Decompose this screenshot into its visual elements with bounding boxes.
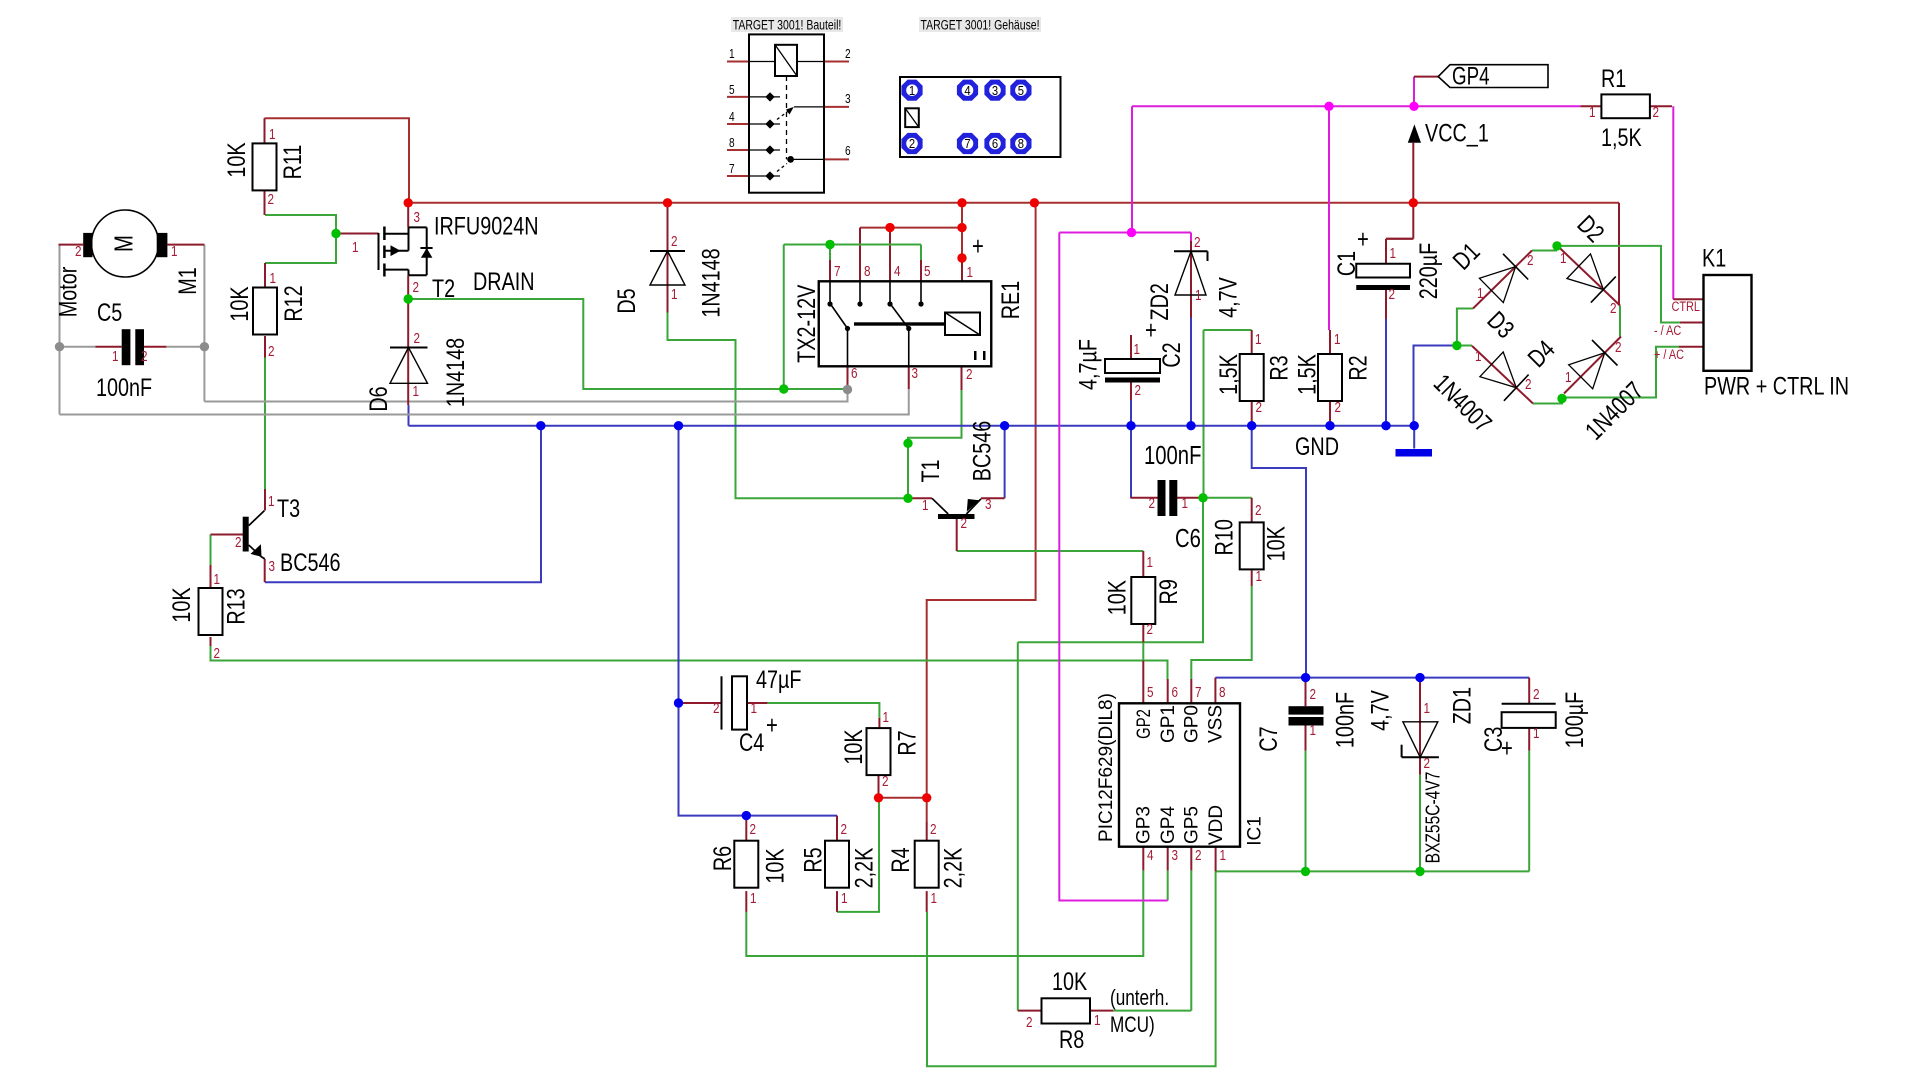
pin R2.2 — [1329, 401, 1331, 426]
pin T3.2 base — [211, 534, 244, 536]
pin ZD2.2 — [1190, 241, 1192, 295]
pin R13.2 — [210, 637, 212, 646]
resistor R3 — [1240, 354, 1264, 401]
pin D5.2 — [667, 203, 669, 285]
wire bus to RE1 coil — [961, 203, 963, 258]
svg-text:6: 6 — [1172, 684, 1179, 701]
svg-text:PIC12F629(DIL8): PIC12F629(DIL8) — [1096, 693, 1117, 842]
pin R8.1 — [1090, 1010, 1113, 1012]
svg-text:1: 1 — [841, 890, 848, 907]
svg-text:- / AC: - / AC — [1654, 323, 1681, 339]
pin R2.1 — [1329, 330, 1331, 354]
svg-text:C1: C1 — [1332, 251, 1361, 276]
pin R5.1 — [836, 891, 838, 912]
pin R12.1 — [264, 263, 266, 288]
pin IC1.4 — [1142, 847, 1144, 871]
svg-text:3: 3 — [269, 558, 276, 575]
junction red (890,227.6) — [885, 223, 894, 232]
wire T2 drain — [408, 299, 784, 389]
svg-text:1: 1 — [1533, 725, 1540, 742]
wire GP4 net to ZD2.2 — [1059, 232, 1191, 234]
svg-text:5: 5 — [1018, 83, 1025, 98]
junction red (962,202.8) — [957, 198, 966, 207]
diode D3 — [1472, 346, 1533, 404]
svg-text:R7: R7 — [892, 730, 921, 755]
wire R12.2 to T3 collector — [264, 358, 266, 490]
svg-text:MCU): MCU) — [1110, 1013, 1155, 1038]
svg-text:47µF: 47µF — [756, 665, 802, 694]
svg-text:GP4: GP4 — [1452, 62, 1489, 90]
svg-text:K1: K1 — [1702, 243, 1726, 272]
resistor R8 — [1042, 998, 1091, 1023]
symbol box TARGET 3001 Gehaeuse — [919, 17, 1041, 32]
svg-text:2: 2 — [235, 534, 242, 551]
svg-text:8: 8 — [729, 136, 735, 150]
wire IC1 GP0 to R10.1 — [1191, 586, 1251, 679]
pin Bautei p5 — [727, 96, 749, 98]
pin R10.1 — [1251, 570, 1253, 586]
pin R1.2 — [1650, 105, 1672, 107]
pin C1.1 — [1385, 239, 1387, 264]
svg-text:GND: GND — [1295, 432, 1339, 461]
pin IC1.8 — [1214, 678, 1216, 704]
wire R11.2 to T2 gate node — [265, 215, 336, 234]
svg-text:2: 2 — [1610, 300, 1617, 317]
svg-text:10K: 10K — [1052, 967, 1087, 996]
wire M1.2 loop left — [59, 245, 61, 415]
junction red (1413.3,202.8) — [1409, 198, 1418, 207]
junction red (962,258) — [957, 253, 966, 262]
pin RE1.3 — [908, 366, 910, 389]
svg-text:3: 3 — [985, 496, 992, 513]
svg-text:1: 1 — [1094, 1012, 1101, 1029]
wire GND bus to C4.2 and R6.2 R5.2 — [679, 426, 838, 816]
pin RE1.1 — [961, 258, 963, 313]
wire node to R4.2 — [926, 798, 928, 822]
svg-text:1,5K: 1,5K — [1292, 354, 1321, 395]
svg-text:10K: 10K — [1261, 526, 1290, 561]
svg-text:2: 2 — [413, 279, 420, 296]
pad 8 — [1010, 133, 1031, 154]
svg-text:10K: 10K — [167, 587, 196, 622]
svg-text:1: 1 — [1560, 250, 1567, 267]
wire GND bus to T1.3 — [1004, 426, 1006, 499]
wire ZD2.1 to GND bus — [1190, 318, 1192, 426]
zener diode ZD2 — [1174, 250, 1208, 252]
svg-text:2: 2 — [930, 821, 937, 838]
pin R8.2 — [1018, 1010, 1042, 1012]
wire C7.1 down — [1305, 751, 1307, 872]
svg-text:8: 8 — [864, 263, 871, 280]
svg-text:R12: R12 — [279, 285, 308, 321]
capacitor C2 — [1105, 359, 1160, 373]
junction blue (746.3,815.6) — [742, 811, 751, 820]
svg-text:2: 2 — [713, 700, 720, 717]
pin T1.2 — [956, 519, 958, 551]
junction red (1034.4,202.8) — [1030, 198, 1039, 207]
wire C6 node down-left — [1018, 498, 1203, 643]
svg-text:1: 1 — [751, 700, 758, 717]
svg-text:10K: 10K — [225, 286, 254, 321]
svg-text:10K: 10K — [760, 848, 789, 883]
svg-text:1: 1 — [1589, 104, 1596, 121]
svg-text:T3: T3 — [277, 494, 300, 523]
pad coil symbol — [905, 108, 919, 127]
svg-text:2: 2 — [214, 645, 221, 662]
svg-text:2: 2 — [268, 343, 275, 360]
svg-text:TX2-12V: TX2-12V — [792, 284, 821, 363]
wire D5.1 to T1 base node — [668, 313, 909, 499]
wire +12V bus — [408, 202, 1619, 204]
wire gate node to R12.1 — [265, 234, 336, 264]
junction green (1557,245.9) — [1552, 241, 1561, 250]
svg-text:C2: C2 — [1157, 342, 1186, 367]
svg-text:2: 2 — [882, 773, 889, 790]
wire RE1 pin8 drop — [859, 228, 861, 282]
svg-text:3: 3 — [912, 365, 919, 382]
svg-text:CTRL: CTRL — [1672, 299, 1701, 315]
svg-text:1: 1 — [171, 243, 178, 260]
svg-text:1: 1 — [1195, 287, 1202, 304]
wire ZD2.2 link — [1190, 233, 1192, 242]
pin IC1.6 — [1167, 679, 1169, 703]
wire RE1 pins 8-4 feed — [860, 227, 962, 229]
svg-text:IC1: IC1 — [1245, 816, 1266, 846]
wire C5.2 link — [166, 346, 204, 348]
svg-text:Motor: Motor — [53, 266, 82, 317]
svg-text:1: 1 — [413, 383, 420, 400]
pin ZD2.1 — [1190, 295, 1192, 318]
junction blue (1305.6,677.6) — [1301, 673, 1310, 682]
svg-text:2: 2 — [1525, 376, 1532, 393]
svg-text:GP1: GP1 — [1158, 705, 1179, 743]
wire down to R8.2 — [1017, 642, 1019, 1010]
wire GP4 net long drop to MCU GP4 — [1059, 233, 1167, 901]
wire to C5.1 — [60, 346, 96, 348]
pin RE1.5 — [920, 260, 922, 281]
svg-text:4: 4 — [729, 110, 735, 124]
diode D2 — [1557, 245, 1620, 305]
pin K1 -/AC — [1680, 322, 1704, 324]
pin RE1.2 — [961, 335, 963, 390]
svg-text:1: 1 — [1255, 331, 1262, 348]
svg-text:4: 4 — [964, 83, 971, 98]
wire R7.2-R4.2 node — [879, 797, 927, 799]
symbol box TARGET 3001 Bauteil — [731, 17, 843, 32]
wire R3.1 down to C6 node — [1203, 330, 1205, 498]
svg-text:2,2K: 2,2K — [938, 848, 967, 889]
wire bridge right corner link — [1619, 306, 1621, 337]
wire GP5 drop — [1190, 870, 1192, 1010]
svg-text:2: 2 — [1255, 502, 1262, 519]
pin Bautei p4 — [727, 123, 749, 125]
wire RE1 pin5 drop — [920, 245, 922, 261]
svg-text:4,7V: 4,7V — [1213, 276, 1242, 317]
pin C5.1 — [95, 346, 121, 348]
pin M1.1 — [167, 244, 204, 246]
svg-text:R9: R9 — [1154, 579, 1183, 604]
wire drain to RE1 pin6 — [784, 388, 848, 390]
pin R3.1 — [1251, 330, 1253, 354]
wire bottom corner to K1 +/AC — [1562, 347, 1679, 398]
svg-text:5: 5 — [924, 263, 931, 280]
pin T2.1 gate — [336, 233, 379, 235]
wire motor to RE1 pin6 — [204, 390, 847, 402]
svg-text:6: 6 — [851, 365, 858, 382]
svg-text:5: 5 — [729, 83, 735, 97]
junction gray (59.5,346.7) — [55, 342, 64, 351]
svg-text:2: 2 — [75, 243, 82, 260]
junction green (408.2,299) — [404, 294, 413, 303]
pin C2.2 — [1130, 383, 1132, 401]
svg-text:4,7µF: 4,7µF — [1073, 339, 1102, 390]
svg-text:1: 1 — [750, 890, 757, 907]
svg-text:TARGET 3001! Gehäuse!: TARGET 3001! Gehäuse! — [920, 17, 1039, 33]
svg-text:1: 1 — [1256, 568, 1263, 585]
pin M1.2 — [59, 244, 84, 246]
pin T2.2 — [407, 275, 409, 299]
junction gray (204.4,346.7) — [200, 342, 209, 351]
svg-text:R13: R13 — [221, 588, 250, 624]
pin R11.1 — [264, 118, 266, 143]
svg-text:2: 2 — [1527, 252, 1534, 269]
svg-text:VDD: VDD — [1206, 805, 1227, 845]
pin R7.2 — [878, 774, 880, 798]
svg-text:1: 1 — [269, 126, 276, 143]
pad 5 — [1010, 80, 1031, 101]
wire C3.1 down — [1528, 751, 1530, 872]
capacitor C4 — [721, 676, 723, 729]
transistor T2 MOSFET — [378, 233, 380, 270]
svg-text:1: 1 — [1475, 348, 1482, 365]
wire node to R5.1 — [837, 798, 879, 912]
diode D4 — [1564, 337, 1621, 394]
svg-text:2: 2 — [1256, 399, 1263, 416]
pin C3.2 — [1528, 678, 1530, 704]
power VCC_1 arrow — [1408, 124, 1421, 142]
svg-text:2: 2 — [845, 47, 851, 61]
svg-text:1: 1 — [967, 264, 974, 281]
svg-text:2: 2 — [268, 191, 275, 208]
svg-text:1: 1 — [1334, 331, 1341, 348]
wire GND bus down to VSS net — [1252, 426, 1306, 678]
pad 1 — [901, 80, 922, 101]
pad 3 — [984, 80, 1005, 101]
wire RE1 pin7-pin5 top link — [784, 244, 921, 246]
pin C4.1 — [747, 702, 767, 704]
svg-text:4,7V: 4,7V — [1365, 689, 1394, 730]
svg-text:2: 2 — [414, 330, 421, 347]
resistor R6 — [734, 841, 758, 888]
svg-text:GP4: GP4 — [1158, 806, 1179, 844]
svg-text:1: 1 — [112, 348, 119, 365]
wire VCC to C1 — [1386, 238, 1413, 240]
pin R9.2 — [1142, 625, 1144, 643]
wire C1.2 to GND bus — [1385, 319, 1387, 426]
svg-text:2: 2 — [1653, 104, 1660, 121]
pin T1.3 — [981, 497, 1005, 499]
pin C7.1 — [1305, 726, 1307, 751]
wire GP4 flag stub — [1413, 77, 1415, 107]
wire VDD down to R4.1 — [927, 871, 1216, 1066]
svg-text:10K: 10K — [839, 729, 868, 764]
wire left corner up to D1.1 — [1457, 309, 1473, 346]
svg-text:R10: R10 — [1209, 519, 1238, 555]
svg-text:M1: M1 — [173, 267, 202, 295]
junction magenta (1414,106.3) — [1409, 102, 1418, 111]
wire ZD1.2 down — [1419, 775, 1421, 872]
resistor R13 — [199, 588, 223, 635]
wire GP4 pin piece — [1167, 870, 1169, 900]
svg-text:1: 1 — [1147, 554, 1154, 571]
wire T3 base to R13.1 — [210, 535, 212, 566]
svg-text:ZD1: ZD1 — [1447, 687, 1476, 724]
svg-text:BC546: BC546 — [967, 421, 996, 482]
pin RE1.7 — [829, 260, 831, 281]
svg-text:1: 1 — [909, 83, 916, 98]
diode D6 — [390, 347, 428, 349]
connector K1 — [1704, 275, 1752, 371]
svg-text:2: 2 — [909, 137, 915, 152]
svg-text:7: 7 — [729, 162, 735, 176]
svg-text:+: + — [1501, 734, 1513, 763]
junction blue (1386,425.7) — [1381, 421, 1390, 430]
pin R10.2 — [1251, 498, 1253, 523]
svg-text:RE1: RE1 — [996, 281, 1025, 320]
wire D6.1 to GND bus — [408, 405, 410, 426]
svg-text:1: 1 — [1182, 495, 1189, 512]
svg-text:IRFU9024N: IRFU9024N — [434, 211, 539, 240]
pin Bautei p3 — [824, 106, 849, 108]
wire motor to RE1 pin3 — [60, 389, 909, 415]
svg-text:+: + — [972, 232, 984, 261]
junction green (1562,398.5) — [1557, 394, 1566, 403]
svg-text:BC546: BC546 — [280, 548, 341, 577]
pin Bautei p1 — [727, 61, 749, 63]
wire left corner to D3.1 — [1457, 345, 1472, 347]
svg-text:+: + — [1357, 225, 1369, 254]
svg-text:100nF: 100nF — [96, 373, 152, 402]
svg-text:GP5: GP5 — [1182, 806, 1203, 844]
diode D1 — [1473, 251, 1532, 309]
svg-text:GP3: GP3 — [1134, 806, 1155, 844]
pad 4 — [957, 80, 978, 101]
svg-text:1: 1 — [1565, 369, 1572, 386]
pin R4.1 — [926, 891, 928, 912]
svg-text:3: 3 — [414, 209, 421, 226]
svg-text:R1: R1 — [1601, 64, 1626, 93]
pad 7 — [957, 133, 978, 154]
wire RE1.2 to T1 base node — [908, 390, 962, 498]
pin IC1.7 — [1190, 679, 1192, 703]
svg-text:PWR + CTRL IN: PWR + CTRL IN — [1704, 371, 1849, 400]
svg-text:1: 1 — [1310, 722, 1317, 739]
svg-text:M: M — [109, 235, 138, 252]
pin ZD1.2 — [1419, 757, 1421, 775]
junction green (1305.5,871.4) — [1301, 867, 1310, 876]
capacitor C5 — [122, 329, 131, 365]
svg-text:GP2: GP2 — [1133, 709, 1154, 739]
svg-text:100nF: 100nF — [1330, 692, 1359, 748]
motor M1 — [92, 210, 159, 277]
svg-text:1N4148: 1N4148 — [696, 248, 725, 317]
junction red (667.5,202.8) — [663, 198, 672, 207]
wire RE1 pin4 drop — [889, 228, 891, 282]
svg-text:1: 1 — [931, 890, 938, 907]
resistor R10 — [1240, 522, 1264, 569]
junction green (908,498.3) — [903, 494, 912, 503]
svg-text:C5: C5 — [97, 298, 122, 327]
transistor T1 — [938, 514, 975, 519]
junction red (408.2,202.8) — [404, 198, 413, 207]
svg-text:1,5K: 1,5K — [1214, 354, 1243, 395]
junction blue (1191,425.7) — [1186, 421, 1195, 430]
svg-text:1: 1 — [671, 286, 678, 303]
wire C4.1 to R7.1 — [767, 703, 879, 718]
capacitor C3 — [1502, 703, 1556, 705]
pin RE1.6 — [847, 366, 849, 389]
svg-text:C4: C4 — [739, 728, 764, 757]
junction gray (847.5,389.5) — [843, 385, 852, 394]
svg-text:1: 1 — [1477, 285, 1484, 302]
junction blue (1004.6,425.7) — [1000, 421, 1009, 430]
svg-text:2: 2 — [1389, 286, 1396, 303]
pin Bautei p2 — [824, 61, 849, 63]
svg-text:10K: 10K — [222, 142, 251, 177]
resistor R1 — [1601, 94, 1650, 118]
zener diode ZD1 — [1403, 722, 1438, 757]
svg-text:(unterh.: (unterh. — [1110, 986, 1169, 1011]
resistor R5 — [825, 841, 849, 888]
junction green (336,233.5) — [331, 229, 340, 238]
svg-text:C6: C6 — [1175, 524, 1201, 553]
svg-text:GP0: GP0 — [1182, 705, 1203, 743]
pin R6.2 — [745, 816, 747, 841]
wire VCC_1 stem — [1412, 143, 1414, 239]
pin C6.2 — [1130, 497, 1157, 499]
svg-text:D5: D5 — [612, 288, 641, 313]
svg-text:7: 7 — [834, 263, 841, 280]
wire T3.3 to GND bus — [265, 426, 541, 583]
pin R1.1 — [1581, 105, 1602, 107]
pin R12.2 — [264, 336, 266, 358]
wire R8.1 to GP5 — [1113, 1010, 1191, 1012]
svg-text:2: 2 — [1147, 621, 1154, 638]
junction blue (678.5,425.7) — [674, 421, 683, 430]
wire C6 node to R10.2 — [1203, 497, 1252, 499]
junction green (1203,497.8) — [1198, 493, 1207, 502]
junction blue (1414.2,425.7) — [1410, 421, 1419, 430]
svg-text:2,2K: 2,2K — [849, 848, 878, 889]
svg-text:T1: T1 — [916, 459, 945, 482]
junction green (783.75,389) — [779, 384, 788, 393]
svg-text:2: 2 — [1424, 755, 1431, 772]
svg-text:1: 1 — [270, 270, 277, 287]
junction blue (1330,425.7) — [1325, 421, 1334, 430]
pin R5.2 — [836, 816, 838, 841]
wire RE1 pin7 drop — [829, 245, 831, 261]
svg-text:4: 4 — [894, 263, 901, 280]
resistor R12 — [253, 288, 277, 335]
pad 6 — [984, 133, 1005, 154]
resistor R9 — [1131, 577, 1155, 624]
pin D5.1 — [667, 285, 669, 313]
resistor R7 — [867, 728, 891, 775]
junction green (908,443.3) — [903, 439, 912, 448]
svg-text:8: 8 — [1219, 684, 1226, 701]
svg-text:TARGET 3001! Bauteil!: TARGET 3001! Bauteil! — [733, 17, 842, 33]
pin C2.1 — [1130, 335, 1132, 359]
